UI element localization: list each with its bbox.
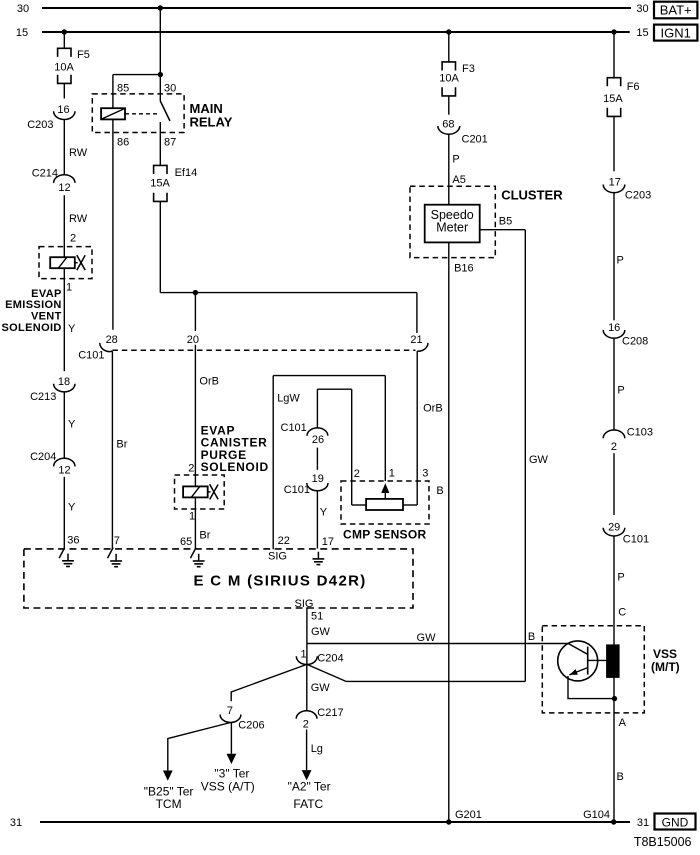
svg-text:21: 21: [410, 334, 422, 346]
svg-text:20: 20: [187, 334, 199, 346]
svg-text:26: 26: [312, 434, 324, 446]
svg-text:1: 1: [189, 511, 195, 523]
svg-text:LgW: LgW: [277, 392, 300, 404]
svg-text:2: 2: [70, 233, 76, 245]
svg-text:"3" Ter: "3" Ter: [214, 767, 249, 781]
svg-text:36: 36: [67, 534, 79, 546]
svg-text:F5: F5: [77, 49, 90, 61]
svg-text:C101: C101: [623, 534, 649, 546]
svg-text:A5: A5: [452, 174, 465, 186]
svg-text:C101: C101: [284, 484, 310, 496]
svg-text:GND: GND: [662, 816, 689, 830]
svg-text:C214: C214: [32, 167, 58, 179]
svg-text:3: 3: [422, 468, 428, 480]
svg-text:F3: F3: [462, 63, 475, 75]
svg-text:Y: Y: [68, 323, 76, 335]
svg-text:E C M (SIRIUS D42R): E C M (SIRIUS D42R): [193, 572, 366, 589]
svg-text:SIG: SIG: [268, 550, 287, 562]
svg-text:16: 16: [57, 104, 69, 116]
svg-text:68: 68: [442, 118, 454, 130]
svg-text:C204: C204: [30, 451, 56, 463]
svg-text:2: 2: [303, 718, 309, 730]
svg-text:C101: C101: [78, 350, 104, 362]
svg-text:Y: Y: [320, 507, 328, 519]
svg-text:SIG: SIG: [295, 598, 314, 610]
svg-text:C203: C203: [27, 119, 53, 131]
svg-text:P: P: [617, 255, 624, 267]
svg-text:BAT+: BAT+: [660, 3, 692, 18]
svg-text:31: 31: [637, 817, 649, 829]
svg-text:C204: C204: [317, 652, 343, 664]
svg-text:87: 87: [164, 136, 176, 148]
svg-text:22: 22: [278, 535, 290, 547]
svg-text:EMISSION: EMISSION: [5, 299, 62, 311]
svg-text:15: 15: [636, 27, 648, 39]
svg-text:1: 1: [300, 649, 306, 661]
svg-text:30: 30: [164, 83, 176, 95]
svg-text:(M/T): (M/T): [651, 660, 680, 674]
svg-text:OrB: OrB: [423, 403, 443, 415]
svg-text:29: 29: [608, 522, 620, 534]
svg-text:C201: C201: [462, 134, 488, 146]
svg-text:18: 18: [58, 376, 70, 388]
svg-text:P: P: [617, 572, 624, 584]
svg-text:Ef14: Ef14: [175, 167, 198, 179]
svg-text:RELAY: RELAY: [190, 114, 233, 129]
svg-text:30: 30: [17, 3, 29, 15]
svg-text:VSS: VSS: [653, 647, 677, 661]
svg-text:C217: C217: [317, 707, 343, 719]
svg-text:GW: GW: [311, 682, 331, 694]
svg-text:B: B: [617, 771, 624, 783]
svg-text:B: B: [436, 485, 443, 497]
svg-text:Y: Y: [68, 419, 76, 431]
svg-text:15: 15: [16, 27, 28, 39]
svg-text:C206: C206: [238, 720, 264, 732]
svg-text:"A2" Ter: "A2" Ter: [288, 780, 331, 794]
svg-text:1: 1: [389, 468, 395, 480]
svg-text:19: 19: [312, 473, 324, 485]
svg-text:Meter: Meter: [436, 220, 468, 234]
svg-text:Br: Br: [199, 530, 210, 542]
svg-text:85: 85: [117, 83, 129, 95]
svg-text:TCM: TCM: [156, 797, 182, 811]
svg-text:CMP SENSOR: CMP SENSOR: [343, 528, 426, 542]
svg-text:RW: RW: [69, 147, 88, 159]
svg-text:1: 1: [66, 281, 72, 293]
svg-text:GW: GW: [311, 626, 331, 638]
svg-text:B: B: [528, 631, 535, 643]
svg-text:B16: B16: [454, 263, 474, 275]
svg-text:17: 17: [609, 177, 621, 189]
svg-text:Lg: Lg: [311, 743, 323, 755]
svg-text:IGN1: IGN1: [661, 25, 691, 40]
svg-text:EVAP: EVAP: [31, 288, 62, 300]
svg-text:86: 86: [117, 136, 129, 148]
svg-text:VENT: VENT: [31, 311, 62, 323]
svg-text:30: 30: [636, 3, 648, 15]
svg-text:12: 12: [58, 182, 70, 194]
svg-text:Y: Y: [68, 501, 76, 513]
svg-text:OrB: OrB: [199, 375, 219, 387]
svg-text:VSS (A/T): VSS (A/T): [201, 780, 255, 794]
svg-text:28: 28: [106, 334, 118, 346]
svg-text:17: 17: [322, 536, 334, 548]
svg-text:51: 51: [311, 611, 323, 623]
svg-text:C103: C103: [627, 427, 653, 439]
svg-text:Br: Br: [116, 438, 127, 450]
svg-text:7: 7: [114, 535, 120, 547]
svg-text:P: P: [617, 385, 624, 397]
svg-text:GW: GW: [529, 454, 549, 466]
svg-text:15A: 15A: [603, 93, 623, 105]
svg-text:2: 2: [611, 441, 617, 453]
svg-text:SOLENOID: SOLENOID: [1, 322, 61, 334]
svg-text:G201: G201: [455, 809, 482, 821]
svg-text:P: P: [452, 154, 459, 166]
svg-text:2: 2: [354, 468, 360, 480]
svg-text:10A: 10A: [439, 73, 459, 85]
svg-text:RW: RW: [69, 213, 88, 225]
svg-text:7: 7: [227, 705, 233, 717]
svg-text:SOLENOID: SOLENOID: [201, 460, 269, 474]
svg-text:65: 65: [180, 536, 192, 548]
svg-text:C208: C208: [622, 336, 648, 348]
svg-text:C213: C213: [30, 391, 56, 403]
svg-text:16: 16: [608, 322, 620, 334]
svg-text:C203: C203: [625, 190, 651, 202]
svg-text:C: C: [618, 607, 626, 619]
svg-text:A: A: [619, 717, 627, 729]
svg-text:B5: B5: [499, 216, 512, 228]
svg-text:F6: F6: [627, 81, 640, 93]
svg-text:GW: GW: [417, 632, 437, 644]
svg-text:12: 12: [58, 464, 70, 476]
svg-text:15A: 15A: [150, 177, 170, 189]
svg-text:CLUSTER: CLUSTER: [501, 187, 563, 202]
svg-text:2: 2: [188, 463, 194, 475]
svg-text:FATC: FATC: [293, 797, 323, 811]
svg-text:10A: 10A: [54, 61, 74, 73]
svg-text:T8B15006: T8B15006: [634, 835, 692, 849]
svg-text:31: 31: [10, 817, 22, 829]
svg-text:C101: C101: [281, 422, 307, 434]
svg-text:G104: G104: [583, 809, 610, 821]
